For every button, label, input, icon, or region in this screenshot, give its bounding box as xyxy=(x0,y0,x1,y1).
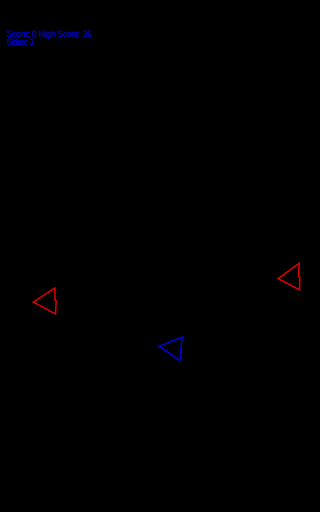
red ship 1 (left) xyxy=(33,288,56,314)
HUD score text xyxy=(6,28,92,39)
svg-text:Sides: 3: Sides: 3 xyxy=(7,36,34,47)
red ship 2 (top right) xyxy=(278,263,300,290)
blue ship (center) xyxy=(159,337,182,360)
HUD sides text xyxy=(6,36,34,47)
